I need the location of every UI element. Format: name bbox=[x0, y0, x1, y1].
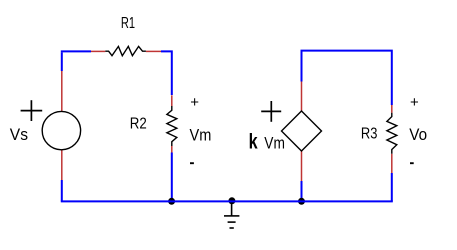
wire left vertical top bbox=[61, 52, 63, 71]
dependent source pin bottom bbox=[301, 151, 303, 181]
svg-text:+: + bbox=[190, 94, 199, 111]
resistor R2 pin bottom bbox=[171, 146, 173, 153]
svg-text:Vo: Vo bbox=[409, 125, 427, 144]
wire R2 bottom to bottom rail bbox=[171, 153, 173, 202]
resistor R3 pin top bbox=[391, 105, 393, 113]
resistor R2 pin top bbox=[171, 95, 173, 106]
svg-text:R3: R3 bbox=[361, 125, 378, 142]
svg-text:Vm: Vm bbox=[190, 126, 212, 145]
resistor R3 pin bottom bbox=[391, 154, 393, 173]
resistor R2 body bbox=[167, 106, 177, 146]
ground bbox=[224, 203, 239, 229]
label minus of Vm bbox=[190, 162, 194, 164]
voltage source Vs pin top bbox=[61, 71, 63, 112]
svg-text:Vm: Vm bbox=[264, 134, 285, 153]
voltage source Vs pin bottom bbox=[61, 149, 63, 180]
svg-text:R2: R2 bbox=[130, 115, 147, 132]
junction node at dependent source bottom bbox=[298, 198, 305, 205]
svg-text:k: k bbox=[249, 130, 258, 153]
resistor R3 body bbox=[387, 113, 397, 154]
wire right loop top bbox=[302, 51, 392, 105]
wire dependent source bottom to bottom rail bbox=[301, 181, 303, 201]
dependent source pin top bbox=[301, 82, 303, 112]
junction node at ground bbox=[228, 197, 235, 204]
wire top-left horizontal bbox=[61, 50, 91, 52]
dependent source plus marker bbox=[261, 101, 281, 122]
svg-text:Vs: Vs bbox=[10, 125, 28, 144]
resistor R1 pin left bbox=[91, 50, 105, 52]
wire bottom rail bbox=[61, 200, 393, 202]
voltage source Vs body bbox=[42, 111, 80, 149]
voltage source Vs plus marker bbox=[21, 100, 43, 121]
svg-text:R1: R1 bbox=[121, 15, 135, 32]
wire R3 bottom to bottom rail bbox=[391, 173, 393, 201]
dependent source body (diamond) bbox=[282, 111, 322, 151]
wire R1 to top-right corner down to R2 bbox=[161, 51, 172, 95]
junction node at R2 bottom bbox=[168, 198, 175, 205]
resistor R1 body bbox=[105, 46, 146, 55]
wire Vs bottom to bottom rail bbox=[61, 180, 63, 201]
label minus of Vo bbox=[410, 162, 414, 164]
svg-text:+: + bbox=[410, 94, 419, 111]
resistor R1 pin right bbox=[146, 50, 161, 52]
